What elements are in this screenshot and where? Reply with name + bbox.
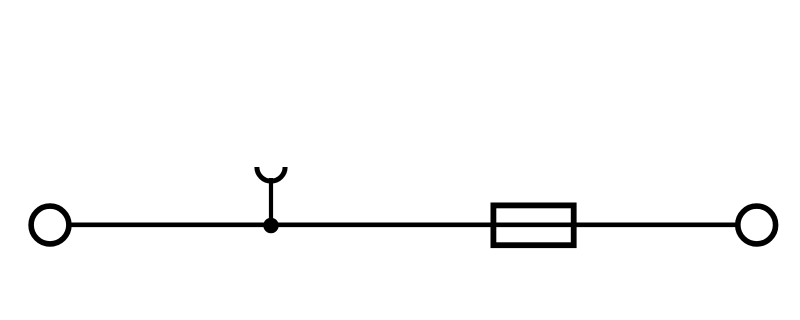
fuse F1: body rectangle [493, 205, 573, 245]
terminal circle left (connection point 1) [31, 206, 69, 244]
wire: left terminal to junction [69, 223, 271, 228]
junction node (test tap connection dot) [263, 218, 278, 233]
fuse F1: through-wire [491, 223, 576, 228]
test tap socket arc [257, 167, 285, 181]
test tap stem [269, 178, 273, 226]
terminal circle right (connection point 2) [738, 206, 776, 244]
wire: fuse to right terminal [576, 223, 738, 228]
wire: junction to fuse [271, 223, 491, 228]
